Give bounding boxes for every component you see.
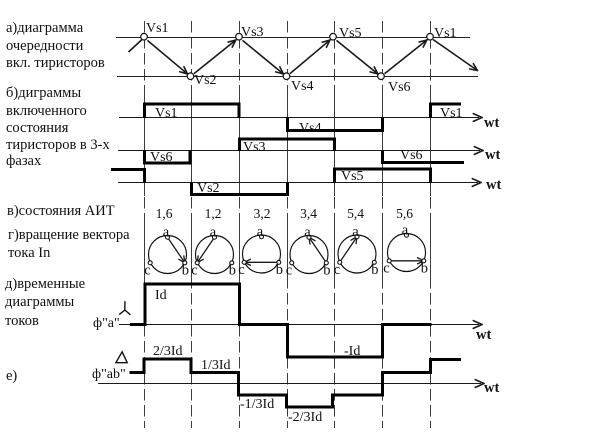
svg-text:c: c — [334, 262, 340, 278]
pulse Vs1 phase a — [143, 103, 146, 118]
waveform f-a — [130, 283, 432, 359]
svg-text:Vs4: Vs4 — [291, 79, 314, 94]
wire Vs4 to Vs5 — [290, 40, 330, 74]
svg-text:a: a — [163, 225, 170, 241]
probe symbol phase a — [119, 301, 130, 315]
svg-text:b: b — [229, 263, 236, 279]
svg-text:c: c — [191, 263, 197, 279]
svg-text:5,4: 5,4 — [347, 206, 364, 221]
svg-text:a: a — [402, 223, 409, 239]
pulse Vs3 phase b — [238, 138, 241, 151]
svg-text:Id: Id — [155, 288, 167, 303]
node Vs1 vertex — [141, 33, 148, 40]
axis phase b — [118, 150, 480, 152]
vector circle U5 state 5,4 — [334, 224, 379, 278]
axis phase c — [118, 182, 478, 184]
svg-text:wt: wt — [484, 115, 499, 131]
vector circle U6 state 5,6 — [383, 223, 428, 277]
svg-text:a: a — [352, 224, 359, 240]
svg-text:-1/3Id: -1/3Id — [240, 397, 274, 412]
wire Vs1 to Vs2 — [147, 40, 187, 74]
svg-text:b: b — [371, 262, 378, 278]
svg-text:b: b — [421, 261, 428, 277]
pulse Vs2 phase c — [190, 183, 193, 196]
pulse Vs6 second phase b — [381, 151, 384, 164]
svg-text:Vs1: Vs1 — [146, 21, 169, 36]
delta symbol — [116, 352, 127, 363]
svg-text:очередности: очередности — [6, 38, 84, 54]
svg-text:Vs3: Vs3 — [241, 25, 264, 40]
svg-text:ф"a": ф"a" — [93, 316, 120, 331]
section a bottom rail — [117, 76, 478, 78]
node Vs5 vertex — [330, 33, 337, 40]
pulse Vs5 phase c — [333, 168, 336, 183]
svg-text:в)состояния АИТ: в)состояния АИТ — [7, 203, 115, 219]
svg-text:5,6: 5,6 — [396, 206, 413, 221]
svg-text:wt: wt — [485, 147, 500, 163]
svg-text:wt: wt — [486, 177, 501, 193]
node Vs2 vertex — [187, 73, 194, 80]
svg-text:wt: wt — [484, 380, 499, 396]
pulse Vs6 phase b — [143, 151, 146, 165]
waveform f-ab — [130, 358, 462, 409]
svg-text:3,2: 3,2 — [254, 206, 271, 221]
wire Vs3 to Vs4 — [242, 40, 283, 74]
wire Vs6 to Vs1 — [385, 40, 427, 74]
svg-text:2/3Id: 2/3Id — [153, 344, 183, 359]
svg-text:1,2: 1,2 — [205, 206, 222, 221]
vector circle U3 state 3,2 — [238, 224, 283, 278]
wire Vs5 to Vs6 — [336, 40, 377, 74]
svg-text:Vs3: Vs3 — [243, 140, 266, 155]
svg-text:диаграммы: диаграммы — [5, 294, 75, 310]
pulse Vs1 second phase a — [429, 103, 432, 118]
section a top rail — [116, 37, 470, 39]
axis f-ab — [98, 383, 481, 385]
svg-text:c: c — [238, 262, 244, 278]
svg-text:c: c — [286, 263, 292, 279]
svg-text:включенного: включенного — [6, 103, 87, 119]
wire lead-in to Vs1 — [129, 40, 143, 53]
svg-text:Vs6: Vs6 — [388, 80, 411, 95]
node Vs1 vertex — [427, 33, 434, 40]
vector circle U1 state 1,6 — [144, 225, 189, 279]
svg-text:Vs5: Vs5 — [339, 26, 362, 41]
svg-text:ф"ab": ф"ab" — [92, 367, 126, 382]
svg-text:г)вращение вектора: г)вращение вектора — [8, 227, 130, 243]
svg-text:фазах: фазах — [6, 153, 42, 169]
svg-text:wt: wt — [476, 327, 491, 343]
vector circle U2 state 1,2 — [191, 225, 236, 279]
svg-text:b: b — [276, 262, 283, 278]
svg-text:а)диаграмма: а)диаграмма — [6, 20, 84, 36]
svg-text:тока In: тока In — [8, 245, 51, 261]
node Vs6 vertex — [378, 73, 385, 80]
svg-text:вкл. тиристоров: вкл. тиристоров — [6, 55, 105, 71]
svg-text:д)временные: д)временные — [5, 276, 85, 292]
axis f-a — [119, 324, 479, 326]
svg-text:Vs1: Vs1 — [440, 106, 463, 121]
svg-text:Vs6: Vs6 — [150, 150, 173, 165]
svg-text:б)диграммы: б)диграммы — [6, 85, 81, 101]
svg-text:a: a — [210, 225, 217, 241]
svg-text:тиристоров в 3-х: тиристоров в 3-х — [6, 137, 110, 153]
svg-text:Vs1: Vs1 — [434, 26, 457, 41]
vertical grid lines — [145, 21, 431, 428]
svg-text:Vs5: Vs5 — [341, 169, 364, 184]
svg-text:Vs4: Vs4 — [299, 121, 322, 136]
svg-text:c: c — [144, 263, 150, 279]
svg-text:a: a — [257, 224, 264, 240]
svg-text:Vs1: Vs1 — [155, 106, 178, 121]
node Vs4 vertex — [283, 73, 290, 80]
vector circle U4 state 3,4 — [286, 225, 331, 279]
svg-text:-Id: -Id — [344, 344, 360, 359]
svg-text:a: a — [304, 225, 311, 241]
pulse Vs4 phase a — [286, 117, 289, 131]
svg-text:токов: токов — [5, 313, 39, 329]
svg-text:1,6: 1,6 — [156, 206, 173, 221]
svg-text:Vs2: Vs2 — [197, 181, 220, 196]
svg-text:состояния: состояния — [6, 120, 69, 136]
svg-text:b: b — [323, 263, 330, 279]
wire Vs1 trailing arrow — [433, 40, 478, 71]
node Vs3 vertex — [236, 33, 243, 40]
svg-text:1/3Id: 1/3Id — [201, 358, 231, 373]
svg-text:Vs6: Vs6 — [400, 148, 423, 163]
wire Vs2 to Vs3 — [194, 40, 236, 74]
svg-text:b: b — [182, 263, 189, 279]
svg-text:c: c — [383, 261, 389, 277]
axis phase a — [119, 117, 479, 119]
svg-text:Vs2: Vs2 — [194, 73, 217, 88]
section labels column — [5, 20, 130, 384]
svg-text:3,4: 3,4 — [300, 206, 317, 221]
svg-text:-2/3Id: -2/3Id — [288, 410, 322, 425]
pulse Vs5 lead-in phase c — [111, 168, 146, 171]
svg-text:е): е) — [6, 368, 17, 384]
